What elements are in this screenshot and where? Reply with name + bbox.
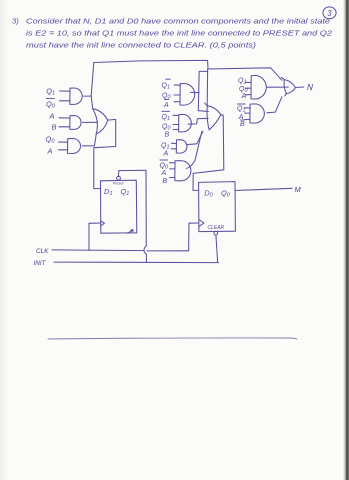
wire: preset to init riser: [119, 170, 147, 176]
svg-text:A: A: [241, 93, 247, 100]
wire: top rail across: [94, 60, 282, 80]
wire: Q0 output to M: [235, 188, 292, 190]
svg-text:CLK: CLK: [36, 248, 49, 255]
svg-text:A: A: [47, 146, 53, 155]
svg-text:INIT: INIT: [34, 260, 47, 267]
or gate O3: [284, 80, 286, 96]
svg-text:A: A: [161, 170, 167, 177]
and gate M3: [176, 140, 187, 153]
svg-text:is E2 = 10, so that Q1 must ha: is E2 = 10, so that Q1 must have the ini…: [26, 29, 333, 38]
wire: init riser down (hops CLK): [145, 170, 147, 245]
svg-text:Preset: Preset: [113, 181, 125, 185]
U1 preset bubble: [117, 176, 121, 180]
svg-text:Q1: Q1: [238, 78, 246, 86]
and gate L2: [70, 116, 81, 130]
svg-text:Q0: Q0: [162, 124, 170, 132]
and gate NB: [250, 104, 264, 123]
svg-text:A: A: [49, 112, 55, 121]
wire: clk riser to U2 clock: [189, 222, 199, 224]
U2 clock triangle: [199, 220, 204, 227]
wire: channel link: [198, 69, 208, 112]
svg-text:CLEAR: CLEAR: [208, 225, 225, 231]
or gate O1: [93, 109, 98, 134]
long separator line: [48, 338, 297, 339]
svg-text:Q0: Q0: [160, 162, 168, 170]
svg-text:Q1: Q1: [237, 105, 245, 113]
circuit labels: [46, 78, 248, 185]
or gate O2: [207, 106, 209, 130]
svg-text:A: A: [163, 151, 169, 158]
svg-text:Q1: Q1: [162, 83, 170, 91]
and gate L1: [70, 88, 82, 104]
U2 clear bubble: [214, 231, 218, 235]
wire: O3 output to N: [296, 86, 304, 89]
svg-text:Q1: Q1: [161, 143, 169, 151]
and gate M4: [175, 161, 191, 181]
svg-text:Q1: Q1: [162, 114, 170, 122]
and gate M1: [180, 84, 195, 106]
wire: clear bubble to INIT rail: [216, 235, 218, 262]
stray arrow mark in U1: [128, 230, 134, 233]
wire: L1 output riser to top rail: [91, 63, 94, 109]
svg-text:B: B: [52, 123, 57, 132]
svg-text:Consider that N, D1 and D0 hav: Consider that N, D1 and D0 have common c…: [26, 16, 330, 25]
svg-text:B: B: [163, 178, 168, 185]
and gate NA: [251, 75, 266, 99]
svg-text:must have the init line connec: must have the init line connected to CLE…: [26, 41, 257, 50]
svg-text:3): 3): [12, 16, 19, 25]
svg-text:M: M: [295, 185, 302, 194]
and gate M2: [179, 114, 192, 131]
svg-text:3: 3: [327, 9, 332, 18]
flip-flop U1 box: [101, 180, 137, 233]
and gate L3: [68, 139, 81, 154]
flip-flop U2 box: [199, 182, 236, 232]
wire: channel right vertical: [206, 71, 208, 105]
U1 clock triangle: [101, 221, 105, 226]
INIT rail: [54, 261, 219, 264]
svg-text:B: B: [165, 132, 170, 139]
wire: O1 output to D1: [94, 119, 116, 188]
wire: O2 output to D0: [193, 115, 224, 191]
svg-text:B: B: [240, 121, 245, 128]
svg-text:A: A: [163, 102, 169, 109]
wire: clk to U1 clock: [89, 222, 101, 224]
CLK rail: [52, 249, 144, 252]
page number circled 3: [323, 7, 336, 19]
svg-text:N: N: [307, 83, 313, 92]
